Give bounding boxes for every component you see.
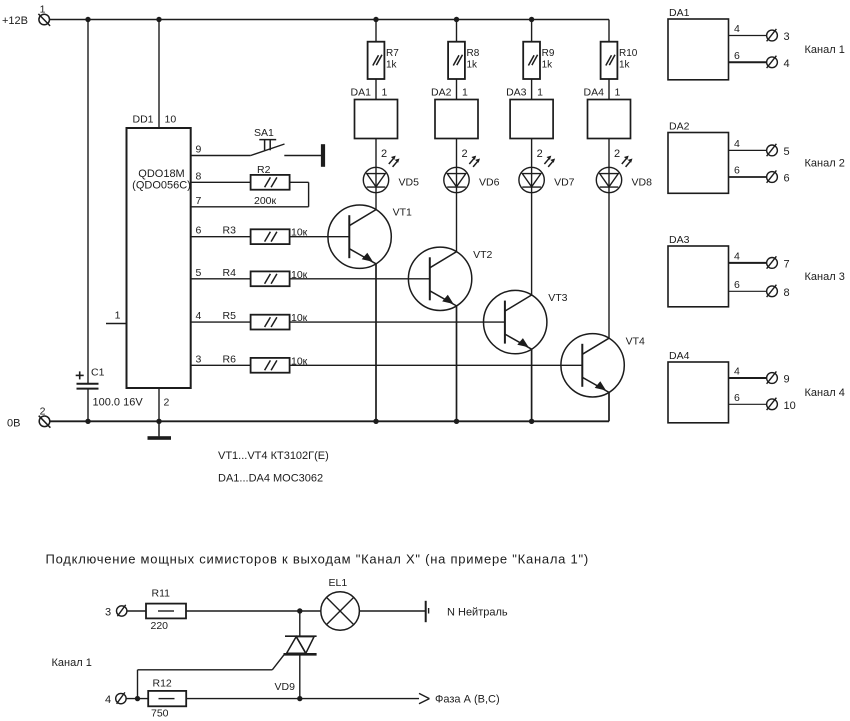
terminal X2 0В — [7, 406, 50, 430]
svg-text:10: 10 — [165, 114, 177, 126]
resistor R2 200к — [251, 164, 290, 207]
terminal 3 — [767, 29, 790, 43]
wire top rail to R10 — [608, 20, 610, 42]
svg-text:7: 7 — [784, 258, 790, 270]
svg-text:6: 6 — [196, 225, 202, 237]
svg-text:7: 7 — [196, 195, 202, 207]
svg-text:4: 4 — [734, 23, 740, 35]
optocoupler input DA3 — [506, 87, 553, 139]
transistor VT1 — [328, 205, 412, 268]
resistor R11 220 — [146, 588, 186, 633]
svg-text:DA2: DA2 — [431, 87, 452, 99]
optocoupler output DA2 — [668, 121, 729, 194]
terminal 4 — [767, 56, 790, 70]
svg-text:DA3: DA3 — [669, 234, 690, 246]
svg-text:R7: R7 — [386, 48, 399, 59]
node 0V rail / C1 — [85, 419, 90, 424]
svg-text:220: 220 — [151, 620, 169, 632]
svg-text:3: 3 — [784, 31, 790, 43]
wire DA1 pin 6 — [729, 50, 767, 63]
svg-text:(QDO056C): (QDO056C) — [132, 180, 191, 192]
svg-text:DA4: DA4 — [669, 350, 690, 362]
resistor R10 1k — [601, 42, 638, 79]
wire DD1 pin 10 — [158, 20, 160, 129]
wire R10 to DA4 pin1 — [608, 79, 610, 100]
resistor R3 10к — [223, 225, 308, 244]
LED VD8 — [596, 156, 652, 193]
wire SA1 to stop bar — [284, 155, 321, 157]
svg-text:1k: 1k — [542, 60, 554, 71]
wire DA1 pin 4 — [729, 23, 767, 36]
terminal 4 input — [105, 692, 126, 706]
svg-text:3: 3 — [196, 353, 202, 365]
svg-text:100.0 16V: 100.0 16V — [93, 397, 144, 409]
wire C1 to 0V rail — [87, 389, 89, 422]
svg-text:QDO18M: QDO18M — [138, 168, 184, 180]
transistor VT2 — [408, 247, 492, 310]
wire VD7 to VT3 collector — [531, 193, 533, 295]
svg-text:R2: R2 — [257, 164, 271, 176]
wire triac gate — [138, 655, 285, 699]
svg-text:R12: R12 — [153, 678, 172, 690]
svg-text:5: 5 — [784, 146, 790, 158]
svg-text:DA1: DA1 — [351, 87, 372, 99]
svg-text:Подключение мощных симисторов: Подключение мощных симисторов к выходам … — [46, 552, 589, 567]
svg-text:10: 10 — [784, 400, 796, 412]
wire triac cathode — [299, 654, 301, 698]
svg-text:1: 1 — [115, 310, 121, 322]
wire DA1 pin2 to VD5 — [375, 139, 377, 168]
svg-text:SA1: SA1 — [254, 127, 274, 139]
svg-text:1k: 1k — [386, 60, 398, 71]
node 0V rail / VT1 emitter — [373, 419, 378, 424]
svg-text:4: 4 — [784, 58, 790, 70]
arrow phase output — [419, 693, 500, 705]
neutral bar N — [426, 601, 508, 622]
wire VT2 emitter to 0V rail — [456, 306, 458, 421]
svg-text:2: 2 — [462, 148, 468, 160]
svg-text:1k: 1k — [619, 60, 631, 71]
node top rail / DD1 pin10 — [156, 17, 161, 22]
wire VT3 emitter to 0V rail — [531, 349, 533, 421]
svg-text:4: 4 — [734, 138, 740, 150]
node 0V rail / VT3 emitter — [529, 419, 534, 424]
wire R4 to VT2 base — [290, 278, 430, 280]
pin 1 stub DD1 — [106, 310, 127, 324]
wire DD1 pin 8 — [191, 181, 251, 183]
node top rail / C1 — [85, 17, 90, 22]
wire DD1 pin 3 — [191, 364, 251, 366]
optocoupler input DA1 — [351, 87, 398, 139]
node top rail / R7 — [373, 17, 378, 22]
wire EL1 to neutral — [359, 610, 425, 612]
LED VD7 — [519, 156, 575, 193]
svg-text:2: 2 — [164, 397, 170, 409]
wire VT4 emitter to 0V rail — [608, 392, 610, 421]
optocoupler input DA2 — [431, 87, 478, 139]
wire triac anode — [299, 611, 301, 636]
terminal X1 +12В — [2, 4, 50, 28]
svg-text:3: 3 — [105, 607, 111, 619]
wire DA2 pin 6 — [729, 165, 767, 178]
svg-text:VT1: VT1 — [393, 207, 412, 219]
wire top rail to R7 — [375, 20, 377, 42]
svg-text:R8: R8 — [467, 48, 480, 59]
resistor R9 1k — [523, 42, 555, 79]
svg-text:DA3: DA3 — [506, 87, 527, 99]
wire DA4 pin2 to VD8 — [608, 139, 610, 168]
svg-text:9: 9 — [196, 144, 202, 156]
wire 0V bottom rail — [50, 420, 609, 422]
svg-text:VT2: VT2 — [473, 249, 492, 261]
node triac cathode / phase wire — [297, 696, 302, 701]
svg-text:4: 4 — [734, 250, 740, 262]
svg-text:6: 6 — [734, 279, 740, 291]
terminal 3 input — [105, 605, 127, 619]
svg-text:DA1...DA4 МОС3062: DA1...DA4 МОС3062 — [218, 473, 323, 485]
svg-text:VT3: VT3 — [548, 292, 567, 304]
optocoupler output DA3 — [668, 234, 729, 307]
svg-text:Канал 2: Канал 2 — [805, 157, 845, 169]
wire VD8 to VT4 collector — [608, 193, 610, 339]
wire R3 to VT1 base — [290, 236, 350, 238]
wire DD1 pin 2 to 0V rail — [159, 388, 170, 421]
resistor R7 1k — [368, 42, 400, 79]
svg-text:C1: C1 — [91, 367, 105, 379]
node triac anode / lamp — [297, 608, 302, 613]
svg-text:R6: R6 — [223, 353, 237, 365]
svg-text:6: 6 — [784, 173, 790, 185]
wire R9 to DA3 pin1 — [531, 79, 533, 100]
svg-text:1: 1 — [462, 87, 468, 99]
resistor R5 10к — [223, 310, 308, 329]
wire VD6 to VT2 collector — [456, 193, 458, 252]
svg-text:1: 1 — [615, 87, 621, 99]
svg-text:0В: 0В — [7, 418, 20, 430]
wire R8 to DA2 pin1 — [456, 79, 458, 100]
svg-text:6: 6 — [734, 392, 740, 404]
resistor R12 750 — [148, 678, 186, 720]
terminal 8 — [767, 285, 790, 299]
wire DA4 pin 4 — [729, 366, 767, 379]
wire R5 to VT3 base — [290, 321, 505, 323]
svg-text:VD9: VD9 — [275, 681, 296, 693]
svg-text:R11: R11 — [152, 588, 171, 600]
wire C1 column — [87, 20, 89, 384]
node top rail / R9 — [529, 17, 534, 22]
svg-text:1: 1 — [537, 87, 543, 99]
wire DA3 pin 4 — [729, 250, 767, 263]
svg-text:VD7: VD7 — [554, 177, 575, 189]
node gate / terminal 4 wire — [135, 696, 140, 701]
terminal 5 — [767, 144, 790, 158]
svg-text:R5: R5 — [223, 310, 237, 322]
svg-text:VD8: VD8 — [632, 177, 653, 189]
svg-text:1: 1 — [40, 4, 46, 16]
svg-text:DA1: DA1 — [669, 7, 690, 19]
svg-text:2: 2 — [381, 148, 387, 160]
svg-text:9: 9 — [784, 374, 790, 386]
wire R12 to phase arrow — [186, 698, 419, 700]
wire DA2 pin 4 — [729, 138, 767, 151]
svg-text:1: 1 — [382, 87, 388, 99]
wire top rail to R9 — [531, 20, 533, 42]
lamp EL1 — [321, 577, 360, 630]
svg-text:R4: R4 — [223, 267, 237, 279]
svg-text:Канал 1: Канал 1 — [52, 657, 92, 669]
svg-text:DA4: DA4 — [584, 87, 605, 99]
svg-text:Канал 3: Канал 3 — [805, 271, 845, 283]
optocoupler output DA4 — [668, 350, 729, 423]
svg-text:200к: 200к — [254, 195, 277, 207]
svg-text:2: 2 — [40, 406, 46, 418]
wire terminal 3 to R11 — [127, 610, 146, 612]
wire DA3 pin2 to VD7 — [531, 139, 533, 168]
svg-text:8: 8 — [784, 287, 790, 299]
ground symbol — [148, 421, 172, 440]
triac VD9 — [275, 636, 317, 693]
svg-text:4: 4 — [734, 366, 740, 378]
node 0V rail / DD1 pin2 — [156, 419, 161, 424]
wire R6 to VT4 base — [290, 364, 583, 366]
svg-text:R10: R10 — [619, 48, 638, 59]
svg-text:8: 8 — [196, 170, 202, 182]
svg-text:2: 2 — [537, 148, 543, 160]
svg-text:6: 6 — [734, 165, 740, 177]
IC DD1 QDO18M (QDO056C) — [127, 114, 191, 389]
wire VT1 emitter to 0V rail — [375, 264, 377, 422]
svg-text:VT4: VT4 — [626, 335, 645, 347]
terminal 10 — [767, 398, 796, 412]
wire DA2 pin2 to VD6 — [456, 139, 458, 168]
wire DD1 pin 9 — [191, 155, 251, 157]
wire DD1 pin 4 — [191, 321, 251, 323]
svg-text:+12В: +12В — [2, 15, 28, 27]
svg-text:VD6: VD6 — [479, 177, 500, 189]
svg-text:750: 750 — [151, 708, 169, 720]
wire R7 to DA1 pin1 — [375, 79, 377, 100]
svg-text:4: 4 — [105, 694, 111, 706]
wire DA4 pin 6 — [729, 392, 767, 405]
svg-text:Канал 4: Канал 4 — [805, 387, 845, 399]
wire +12V top rail — [50, 19, 610, 21]
contact bar SA1 — [321, 144, 325, 167]
resistor R8 1k — [448, 42, 480, 79]
terminal 9 — [767, 371, 790, 385]
LED VD6 — [444, 156, 500, 193]
wire DD1 pin 6 — [191, 236, 251, 238]
transistor VT3 — [484, 290, 568, 353]
LED VD5 — [363, 156, 419, 193]
resistor R4 10к — [223, 267, 308, 286]
wire R2 to pin 7 — [290, 181, 309, 183]
svg-text:N Нейтраль: N Нейтраль — [447, 607, 508, 619]
node 0V rail / VT2 emitter — [454, 419, 459, 424]
terminal 7 — [767, 256, 790, 270]
svg-text:Канал 1: Канал 1 — [805, 44, 845, 56]
optocoupler output DA1 — [668, 7, 729, 80]
svg-text:DD1: DD1 — [133, 114, 154, 126]
optocoupler input DA4 — [584, 87, 631, 139]
transistor VT4 — [561, 334, 645, 397]
svg-text:R3: R3 — [223, 225, 237, 237]
resistor R6 10к — [223, 353, 308, 372]
svg-text:DA2: DA2 — [669, 121, 690, 133]
svg-text:Фаза А (В,С): Фаза А (В,С) — [435, 694, 500, 706]
svg-text:EL1: EL1 — [329, 577, 348, 589]
switch SA1 — [251, 127, 285, 156]
svg-text:2: 2 — [614, 148, 620, 160]
svg-text:4: 4 — [196, 310, 202, 322]
wire top rail to R8 — [456, 20, 458, 42]
wire DA3 pin 6 — [729, 279, 767, 292]
svg-text:R9: R9 — [542, 48, 555, 59]
svg-text:VD5: VD5 — [399, 177, 420, 189]
capacitor C1 100.0 16V — [76, 367, 144, 409]
wire VD5 to VT1 collector — [375, 193, 377, 210]
wire R11 to lamp EL1 — [186, 610, 321, 612]
terminal 6 — [767, 170, 790, 184]
svg-text:1k: 1k — [467, 60, 479, 71]
svg-text:6: 6 — [734, 50, 740, 62]
wire terminal 4 to R12 — [126, 698, 148, 700]
svg-text:5: 5 — [196, 267, 202, 279]
node top rail / R8 — [454, 17, 459, 22]
wire DD1 pin 5 — [191, 278, 251, 280]
svg-text:VT1...VT4 КТ3102Г(Е): VT1...VT4 КТ3102Г(Е) — [218, 450, 329, 462]
